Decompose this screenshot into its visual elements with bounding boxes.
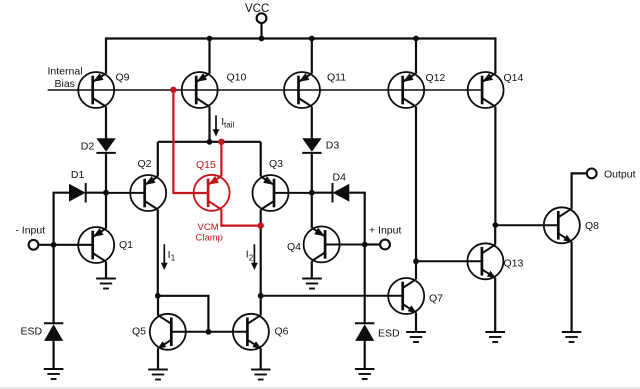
- svg-text:Q15: Q15: [196, 159, 216, 171]
- wire left ESD to ground: [52, 341, 54, 369]
- wire D1 cathode to node: [86, 192, 106, 194]
- minus Input terminal: [15, 225, 45, 250]
- wire Q8 emitter to ground: [570, 242, 572, 332]
- wire Q2 base: [106, 192, 145, 194]
- svg-text:Q8: Q8: [585, 220, 599, 232]
- node minus input ESD: [51, 242, 57, 248]
- wire D2 to node: [105, 153, 107, 193]
- wire Q11 collector lead: [311, 107, 313, 139]
- wire Q4 base: [325, 244, 365, 246]
- svg-text:2: 2: [249, 254, 254, 263]
- wire Q4 collector to ground: [311, 261, 313, 279]
- svg-text:Q9: Q9: [116, 72, 130, 84]
- svg-text:- Input: - Input: [15, 225, 45, 237]
- label VCM Clamp: [196, 222, 223, 244]
- svg-text:Q14: Q14: [504, 72, 524, 84]
- transistor Q10: [182, 72, 247, 109]
- wire Q10 emitter lead: [208, 39, 210, 74]
- node Q12-Q7-Q13: [413, 258, 419, 264]
- node Q14-Q13-Q8: [493, 222, 499, 228]
- svg-text:Q5: Q5: [132, 326, 146, 338]
- wire Q4 emitter lead: [311, 193, 313, 228]
- node Q5-Q6 base: [206, 329, 212, 335]
- current arrow I1: [161, 244, 176, 270]
- svg-text:Q1: Q1: [119, 239, 133, 251]
- wire D1 anode corner: [54, 193, 70, 194]
- node plus input: [362, 242, 368, 248]
- wire Q7 collector lead: [415, 261, 417, 279]
- wire VCC stub: [260, 23, 262, 39]
- wire Q11 emitter lead: [311, 39, 313, 74]
- wire to Q7 base: [261, 295, 403, 297]
- wire Q2 emitter lead: [157, 142, 159, 177]
- wire Q3 emitter lead: [260, 142, 262, 177]
- label Internal Bias: [48, 66, 83, 91]
- wire Q6 collector lead: [260, 296, 262, 316]
- svg-text:Internal: Internal: [48, 66, 83, 78]
- svg-text:tail: tail: [224, 121, 234, 130]
- node rail-Q10: [207, 36, 213, 42]
- transistor Q3 (mirrored): [253, 158, 289, 211]
- svg-text:Q11: Q11: [327, 72, 346, 84]
- svg-text:Q6: Q6: [275, 326, 289, 338]
- wire Q12 emitter lead: [415, 39, 417, 74]
- svg-text:Q4: Q4: [287, 241, 301, 253]
- transistor Q12: [388, 72, 445, 108]
- ESD diode right: [355, 323, 400, 341]
- Output terminal: [587, 169, 636, 181]
- wire red Q15 emitter lead: [220, 142, 222, 176]
- wire Q12 collector lead: [415, 107, 417, 262]
- ground Q6: [251, 370, 271, 380]
- node D1-D2-Q1-Q2: [103, 190, 109, 196]
- wire node to D4: [312, 192, 333, 194]
- wire right ESD to ground: [364, 341, 366, 369]
- wire red Q15 collector: [221, 209, 261, 225]
- wire Q2 collector lead: [157, 210, 159, 296]
- transistor Q9: [78, 72, 129, 109]
- ground left ESD: [44, 369, 64, 379]
- svg-text:Q13: Q13: [504, 258, 524, 270]
- node red VCM clamp: [258, 222, 264, 228]
- node Q3-Q6 collector: [258, 293, 264, 299]
- transistor Q14: [468, 72, 524, 108]
- wire internal bias rail: [48, 89, 482, 91]
- wire Q13 collector lead: [494, 225, 496, 245]
- node rail-VCC: [259, 36, 265, 42]
- svg-text:D1: D1: [71, 169, 85, 181]
- wire plus input: [365, 243, 381, 245]
- ground Q4: [302, 279, 322, 289]
- wire tail rail: [158, 141, 261, 143]
- node red tail tap: [218, 139, 224, 145]
- wire minus input to Q1 base: [38, 244, 93, 246]
- ground Q5: [148, 370, 168, 380]
- current arrow I2: [246, 244, 258, 270]
- wire Q5 collector-base tie: [158, 296, 209, 332]
- wire Q6 emitter to ground: [260, 348, 262, 369]
- svg-text:VCC: VCC: [245, 3, 269, 15]
- transistor Q15 (red): [194, 159, 230, 211]
- wire Q10 collector lead: [208, 107, 210, 142]
- wire Q1 emitter to ground: [105, 262, 107, 279]
- wire D4 anode corner: [349, 193, 364, 194]
- transistor Q4 (mirrored): [287, 226, 340, 262]
- node D3-D4-Q3-Q4: [309, 190, 315, 196]
- transistor Q2: [130, 158, 166, 211]
- wire Q3 collector lead: [260, 210, 262, 296]
- wire to Q8 base: [495, 224, 558, 226]
- svg-text:D2: D2: [81, 141, 95, 153]
- svg-text:Output: Output: [604, 169, 636, 181]
- wire Q9 emitter lead: [105, 37, 107, 73]
- diode D4: [333, 172, 350, 203]
- plus Input terminal: [369, 225, 401, 250]
- svg-text:Q10: Q10: [227, 72, 247, 84]
- svg-text:ESD: ESD: [378, 328, 400, 340]
- wire Q5 collector lead: [157, 296, 159, 316]
- node tail: [207, 139, 213, 145]
- svg-text:Q3: Q3: [269, 158, 283, 170]
- svg-text:+ Input: + Input: [369, 225, 401, 237]
- svg-text:VCM: VCM: [198, 222, 219, 233]
- transistor Q8: [544, 207, 599, 243]
- wire Q13 base: [416, 260, 482, 262]
- wire Q9 collector lead: [105, 107, 107, 139]
- wire Q13 emitter to ground: [494, 278, 496, 332]
- svg-text:Q7: Q7: [429, 293, 443, 305]
- bottom page edge line: [0, 387, 640, 389]
- svg-text:1: 1: [171, 254, 176, 263]
- svg-text:ESD: ESD: [21, 326, 43, 338]
- node rail-Q11: [309, 36, 315, 42]
- diode D1: [69, 169, 86, 203]
- transistor Q11: [284, 72, 346, 109]
- wire red Q15 base: [173, 90, 208, 193]
- wire top VCC rail: [106, 37, 495, 39]
- transistor Q1: [78, 227, 133, 263]
- svg-text:Q2: Q2: [138, 158, 152, 170]
- current arrow Itail: [213, 115, 235, 136]
- node red bias tap: [170, 87, 176, 93]
- ground Q13: [485, 332, 505, 342]
- diode D2: [81, 138, 116, 153]
- node Q2-Q5 collector: [155, 293, 161, 299]
- wire Q3 base: [274, 192, 312, 194]
- svg-text:Q12: Q12: [426, 72, 446, 84]
- wire left ESD column: [52, 193, 54, 324]
- wire D3 to node: [311, 153, 313, 193]
- node rail-Q12: [413, 36, 419, 42]
- ground Q8: [562, 332, 582, 342]
- svg-text:Clamp: Clamp: [196, 233, 223, 244]
- VCC terminal: [245, 3, 269, 23]
- ground right ESD: [355, 369, 375, 379]
- ESD diode left: [21, 323, 64, 341]
- svg-text:Bias: Bias: [55, 78, 75, 90]
- wire Q5 emitter to ground: [157, 348, 159, 369]
- svg-text:D3: D3: [326, 140, 340, 152]
- wire Q14 emitter lead: [494, 37, 496, 73]
- transistor Q6: [233, 314, 289, 350]
- transistor Q13: [467, 243, 523, 279]
- svg-text:D4: D4: [333, 172, 347, 184]
- diode D3: [302, 138, 339, 153]
- transistor Q7: [388, 278, 443, 314]
- ground Q1: [96, 279, 116, 289]
- wire Q7 emitter to ground: [415, 313, 417, 332]
- wire right ESD column: [364, 193, 366, 324]
- wire Q14 collector lead: [494, 107, 496, 225]
- wire Q1 collector lead: [105, 193, 107, 229]
- wire Q5 base to Q6 base: [171, 331, 247, 333]
- wire Q8 collector to output: [572, 173, 588, 208]
- transistor Q5 (mirrored): [132, 314, 186, 350]
- ground Q7: [406, 332, 426, 342]
